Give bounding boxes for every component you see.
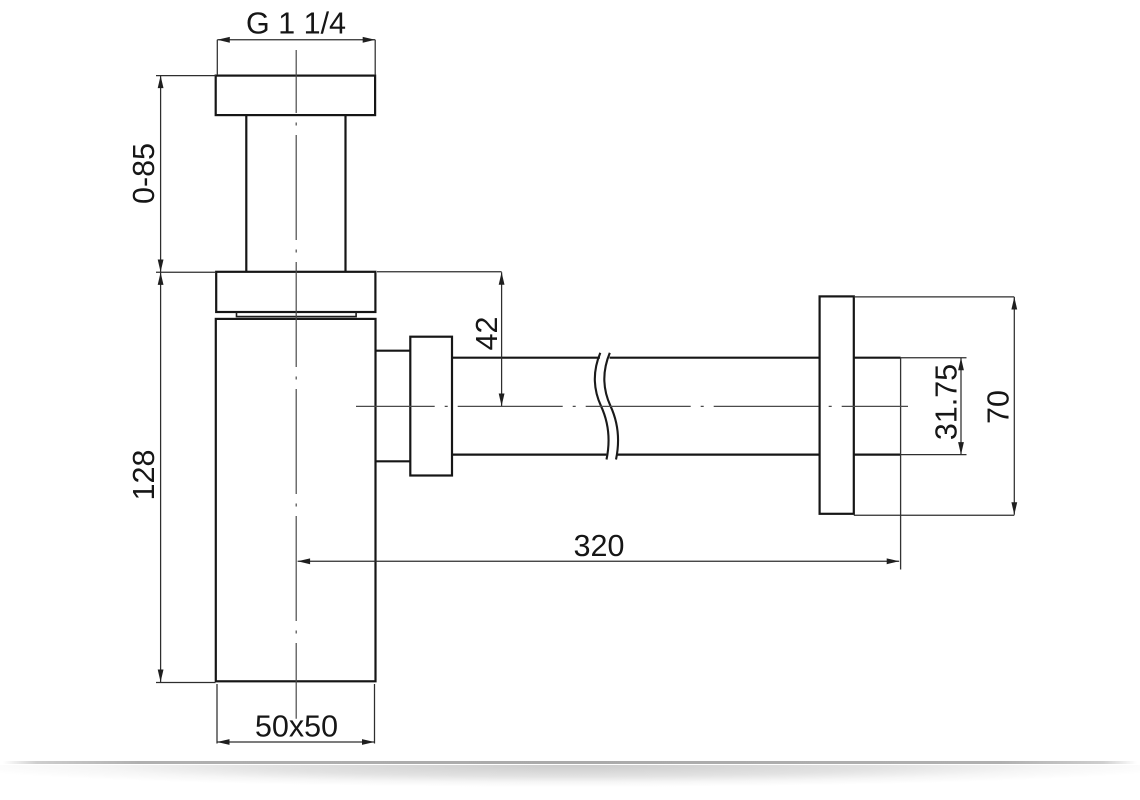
- vertical tailpipe: [246, 115, 345, 271]
- dim 42 line: [501, 272, 503, 406]
- dim G 1 1/4 line: [217, 39, 375, 41]
- dim 31.75 extension lines: [901, 358, 967, 455]
- dim 50x50 line: [217, 741, 375, 743]
- floor shadow blur: [0, 765, 1140, 790]
- wall flange: [820, 296, 854, 513]
- dim 128 line: [160, 272, 162, 682]
- dim 50x50 extension lines: [217, 684, 375, 744]
- vertical centerline: [295, 50, 297, 719]
- dim G 1 1/4 extension lines: [217, 40, 375, 75]
- outlet pipe top edge: [452, 357, 901, 359]
- trap body: [216, 319, 376, 681]
- label 50x50: [256, 715, 337, 737]
- dim 70 extension lines: [854, 297, 1015, 515]
- washer: [237, 312, 357, 316]
- horizontal centerline: [356, 405, 908, 407]
- label 31.75: [935, 365, 957, 439]
- outlet pipe bottom edge: [452, 454, 901, 456]
- dim 42 top connector: [377, 271, 502, 273]
- dim 0-85 line: [160, 76, 162, 272]
- label 70: [987, 391, 1009, 422]
- pipe end cap / 320 right extension: [900, 358, 902, 570]
- label 0-85: [133, 144, 155, 203]
- dim 128 bottom extension: [156, 682, 216, 684]
- label 128: [133, 451, 155, 498]
- label 320: [575, 535, 624, 557]
- dim 70 line: [1013, 297, 1015, 515]
- body top flange: [216, 272, 375, 312]
- top flange: [216, 76, 375, 116]
- dim 320 line: [298, 560, 900, 562]
- floor shadow line: [3, 761, 1137, 764]
- outlet stub: [376, 351, 411, 462]
- dim 31.75 line: [960, 358, 962, 455]
- label G 1 1/4: [248, 11, 346, 33]
- pipe break S-curves: [595, 353, 609, 460]
- outlet nut: [410, 337, 452, 476]
- label 42: [476, 318, 497, 350]
- dim 0-85 extension lines: [156, 76, 216, 273]
